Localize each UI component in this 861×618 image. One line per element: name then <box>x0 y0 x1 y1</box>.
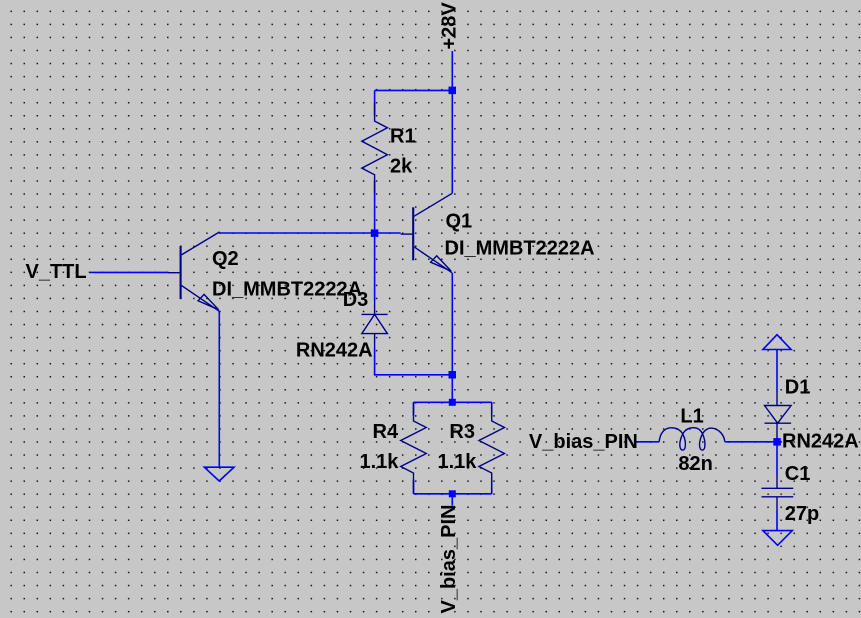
svg-text:R1: R1 <box>390 126 416 148</box>
svg-text:27p: 27p <box>785 503 819 525</box>
svg-text:Q2: Q2 <box>212 248 239 270</box>
svg-text:L1: L1 <box>680 405 703 427</box>
svg-text:1.1k: 1.1k <box>360 451 400 473</box>
svg-text:2k: 2k <box>390 156 413 178</box>
svg-text:D1: D1 <box>785 377 811 399</box>
svg-text:V_bias_PIN: V_bias_PIN <box>529 431 638 453</box>
svg-text:DI_MMBT2222A: DI_MMBT2222A <box>212 278 362 300</box>
svg-text:V_TTL: V_TTL <box>26 261 87 283</box>
svg-text:C1: C1 <box>785 463 811 485</box>
svg-text:+28V: +28V <box>439 2 461 50</box>
svg-text:RN242A: RN242A <box>296 339 373 361</box>
svg-text:82n: 82n <box>678 453 712 475</box>
svg-text:R4: R4 <box>373 421 399 443</box>
svg-text:DI_MMBT2222A: DI_MMBT2222A <box>445 237 595 259</box>
svg-text:1.1k: 1.1k <box>438 451 478 473</box>
svg-text:V_bias_PIN: V_bias_PIN <box>438 505 460 614</box>
svg-text:D3: D3 <box>343 289 369 311</box>
svg-text:RN242A: RN242A <box>782 431 859 453</box>
svg-text:R3: R3 <box>449 421 475 443</box>
svg-text:Q1: Q1 <box>446 210 473 232</box>
